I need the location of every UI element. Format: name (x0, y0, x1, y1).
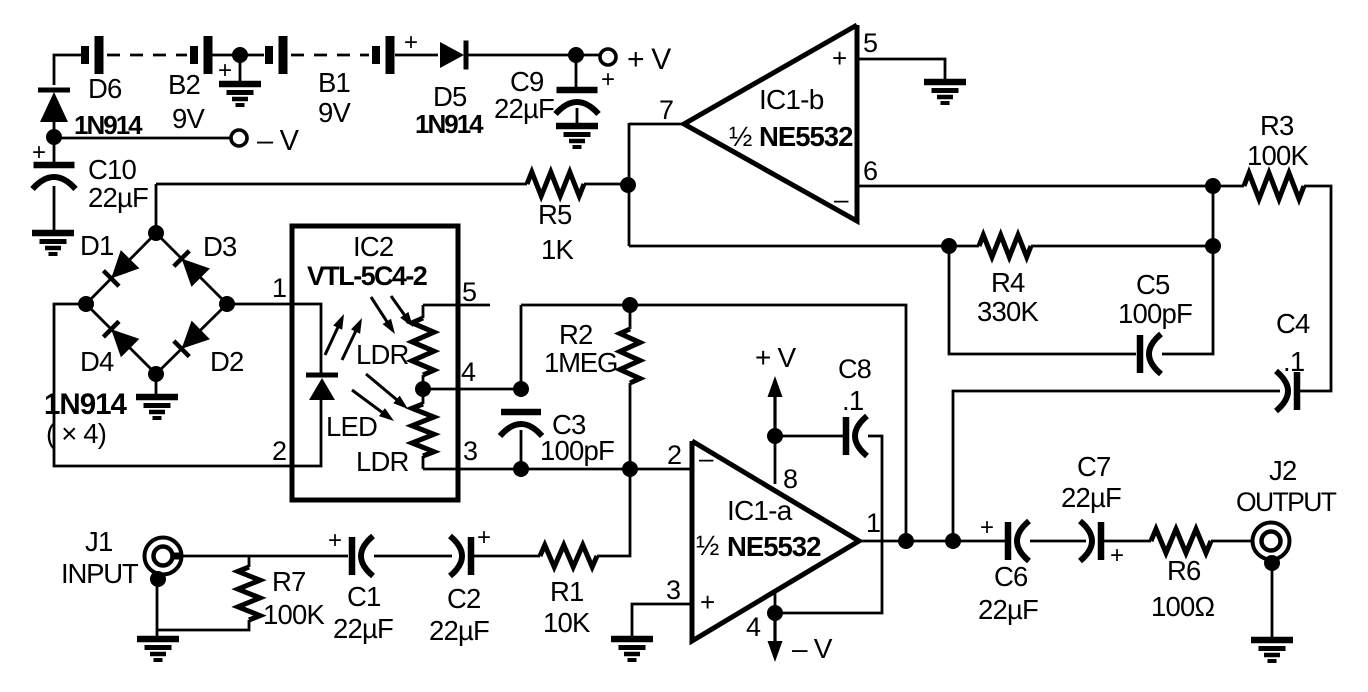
label R4 value 330K (977, 296, 1039, 327)
label R2 value 1MEG (544, 347, 617, 378)
svg-text:R4: R4 (991, 267, 1025, 298)
label +V (627, 43, 671, 76)
svg-text:+: + (601, 66, 614, 93)
label R6 value 100 ohm (1151, 591, 1214, 622)
svg-text:1K: 1K (541, 234, 574, 265)
label IC2 pin 5 (462, 277, 476, 307)
label J1 INPUT (61, 558, 139, 589)
svg-text:B2: B2 (168, 69, 200, 100)
wire C5 to R4 right (1162, 246, 1213, 354)
label +V supply (755, 342, 797, 373)
light arrow upper LDR 1 (371, 297, 395, 334)
wire C2 to R1 (471, 555, 540, 558)
battery B1 cell 1 (269, 36, 283, 74)
svg-text:C1: C1 (347, 581, 381, 612)
label IC1-b pin 7 (659, 95, 673, 125)
ground battery center (219, 84, 261, 105)
wire lower LDR top stub (422, 389, 425, 404)
wire top line to output (521, 305, 906, 541)
node R4 left (941, 238, 957, 254)
wire J1 to ground (156, 578, 159, 639)
node output 1 (898, 533, 914, 549)
wire pin 6 riser (1212, 186, 1215, 246)
label C4 value .1 (1283, 346, 1304, 377)
label IC1-b pin 6 (863, 156, 877, 186)
svg-text:2: 2 (272, 436, 286, 466)
svg-text:3: 3 (666, 575, 680, 605)
optocoupler IC2 box (292, 226, 458, 500)
terminal -V (231, 130, 247, 146)
capacitor C2 (450, 536, 471, 576)
svg-text:D4: D4 (80, 346, 114, 377)
label J1 (85, 526, 112, 557)
capacitor C6 (1008, 521, 1029, 561)
svg-text:R7: R7 (272, 566, 306, 597)
wire C5 branch (949, 246, 1136, 354)
terminal +V (600, 49, 616, 65)
wire bridge edge bottom-left (86, 304, 156, 374)
svg-text:– V: – V (792, 633, 833, 664)
label C1 (347, 581, 381, 612)
diode D1 (103, 250, 139, 286)
wire pin 7 vertical (628, 123, 631, 246)
svg-text:22µF: 22µF (333, 613, 393, 644)
label IC1-a pin 4 (746, 612, 761, 642)
svg-text:D1: D1 (80, 230, 114, 261)
label IC1-b half (729, 121, 752, 152)
label D6 (88, 73, 122, 104)
wire bridge left node to IC2 pin 2 (54, 304, 321, 466)
LED inside IC2 (306, 375, 338, 400)
svg-text:.1: .1 (1283, 346, 1304, 377)
svg-text:4: 4 (746, 612, 761, 642)
wire center tap to ground (239, 55, 242, 84)
wire R2 top stub (629, 305, 632, 329)
light arrow LED up 1 (325, 314, 344, 355)
node +V (568, 47, 584, 63)
ground pin 3 (611, 639, 653, 660)
label C9 plus (601, 66, 614, 93)
label IC1-a part NE5532 (727, 531, 821, 562)
wire top rail corner to D6 (54, 55, 55, 85)
label bridge part 1N914 (44, 388, 128, 421)
label C10 plus (32, 139, 45, 166)
resistor R7 (238, 567, 260, 620)
label C10 value 22uF (88, 182, 148, 213)
label J2 OUTPUT (1236, 487, 1337, 517)
label IC2 (353, 231, 393, 262)
capacitor C10 (33, 165, 76, 189)
label IC1-a (727, 495, 793, 526)
svg-text:6: 6 (863, 156, 877, 186)
node J2 sleeve (1264, 555, 1280, 571)
ground J1 (137, 639, 179, 660)
resistor R4 (979, 235, 1031, 257)
wire C8 to pin 4 (775, 436, 882, 613)
wire C9 to ground (576, 108, 579, 127)
op-amp IC1-b (684, 25, 857, 221)
label upper LDR (356, 339, 409, 370)
wire dashed between B1 cells (291, 54, 369, 57)
wire -V line (54, 137, 231, 140)
svg-text:R3: R3 (1260, 110, 1294, 141)
svg-text:+: + (832, 43, 846, 73)
wire R2 bottom stub (629, 383, 632, 469)
wire pin 7 stub (629, 123, 684, 126)
wire dashed between B2 cells (107, 54, 187, 57)
connector J1 jack (145, 538, 184, 575)
label R3 (1260, 110, 1294, 141)
label IC1-b (759, 84, 824, 115)
label R7 value 100K (263, 599, 325, 630)
label C1 plus (328, 527, 341, 554)
wire pin 4 vertical (774, 592, 777, 613)
wire IC1-a output (859, 540, 1008, 543)
wire pin6 node to R3 (1213, 185, 1244, 188)
diode D2 (174, 321, 210, 357)
wire D5 to +V node (468, 54, 600, 57)
svg-text:– V: – V (257, 125, 300, 157)
ground J2 (1251, 640, 1293, 661)
arrow -V supply (768, 618, 783, 662)
svg-text:1: 1 (866, 508, 880, 538)
svg-text:½: ½ (729, 121, 752, 152)
label R5 value 1K (541, 234, 574, 265)
photoresistor lower LDR (412, 404, 434, 456)
svg-text:7: 7 (659, 95, 673, 125)
label C7 plus (1110, 542, 1123, 569)
ground C9 (556, 126, 598, 147)
wire J2 to ground (1271, 563, 1274, 640)
label R4 (991, 267, 1025, 298)
label B1 (318, 67, 350, 98)
wire pin 6 line (857, 185, 1213, 188)
node IC2 pin 4 junction (415, 381, 431, 397)
svg-text:R5: R5 (538, 199, 572, 230)
label LED (326, 411, 377, 442)
label B2 plus (218, 57, 231, 84)
capacitor C9 (556, 90, 599, 114)
wire bridge right node to IC2 pin 1 (227, 304, 321, 373)
resistor R5 (527, 172, 584, 196)
label IC1-a plus input (700, 587, 714, 617)
svg-text:100Ω: 100Ω (1151, 591, 1214, 622)
svg-text:1N914: 1N914 (44, 388, 128, 421)
label D5 part 1N914 (415, 109, 484, 139)
label C2 (447, 583, 481, 614)
svg-text:C10: C10 (88, 154, 137, 185)
wire R1 to pin 2 riser (597, 469, 630, 556)
wire C7 to R6 (1101, 540, 1151, 543)
wire B1 to D5 (395, 54, 438, 57)
resistor R3 (1244, 173, 1304, 199)
node bridge right (219, 296, 235, 312)
op-amp IC1-a (692, 441, 859, 641)
svg-text:C5: C5 (1136, 269, 1170, 300)
svg-text:J1: J1 (85, 526, 112, 557)
svg-text:4: 4 (461, 357, 476, 387)
node R4 right (1205, 238, 1221, 254)
svg-text:C7: C7 (1077, 451, 1111, 482)
label D5 (433, 81, 467, 112)
svg-text:330K: 330K (977, 296, 1039, 327)
wire bridge top stub (155, 184, 158, 233)
label C3 value 100pF (540, 435, 614, 466)
wire pin 3 to ground (632, 604, 692, 639)
capacitor C4 (1276, 371, 1297, 411)
label IC1-a pin 3 (666, 575, 680, 605)
svg-text:22µF: 22µF (1061, 482, 1121, 513)
label B2 (168, 69, 200, 100)
svg-text:C2: C2 (447, 583, 481, 614)
svg-text:5: 5 (863, 28, 877, 58)
label C5 (1136, 269, 1170, 300)
wire B2 to B1 (212, 54, 264, 57)
svg-text:R1: R1 (550, 576, 584, 607)
label IC2 pin 3 (463, 436, 477, 466)
diode D6 (38, 90, 70, 122)
svg-text:IC1-b: IC1-b (759, 84, 824, 115)
svg-text:+: + (328, 527, 341, 554)
wire pin 8 vertical (774, 398, 777, 484)
wire +V node to C9 (575, 55, 578, 87)
label C4 (1276, 308, 1310, 339)
label IC1-b part NE5532 (759, 121, 853, 152)
connector J2 jack (1253, 523, 1290, 560)
capacitor C8 (846, 416, 867, 456)
label IC1-a pin 1 (866, 508, 880, 538)
label C1 value 22uF (333, 613, 393, 644)
svg-text:–: – (834, 184, 849, 214)
label C7 value 22uF (1061, 482, 1121, 513)
arrow +V supply (768, 376, 783, 430)
label D3 (203, 231, 237, 262)
svg-text:IC1-a: IC1-a (727, 495, 793, 526)
label R5 (538, 199, 572, 230)
svg-text:3: 3 (463, 436, 477, 466)
wire C6 to C7 (1030, 540, 1086, 543)
light arrow LED up 2 (342, 318, 362, 360)
battery B1 cell 2 (376, 36, 390, 74)
svg-text:10K: 10K (543, 607, 591, 638)
svg-text:LED: LED (326, 411, 377, 442)
label B1 plus (404, 29, 417, 56)
wire pin 8 to C8 (775, 435, 846, 438)
wire bridge edge top-right (156, 233, 227, 304)
svg-text:5: 5 (462, 277, 476, 307)
svg-text:B1: B1 (318, 67, 350, 98)
svg-text:1N914: 1N914 (74, 110, 143, 140)
svg-text:2: 2 (667, 440, 681, 470)
svg-text:9V: 9V (172, 103, 205, 134)
svg-text:D5: D5 (433, 81, 467, 112)
label C5 value 100pF (1118, 298, 1192, 329)
label C7 (1077, 451, 1111, 482)
battery B2 cell 1 (85, 36, 99, 74)
label C6 (994, 561, 1028, 592)
wire C10 to ground (53, 186, 56, 233)
light arrow lower LDR 2 (352, 390, 394, 421)
label C6 plus (980, 514, 993, 541)
svg-text:+ V: + V (755, 342, 797, 373)
label C8 value .1 (842, 385, 863, 416)
svg-text:22µF: 22µF (978, 594, 1038, 625)
label D4 (80, 346, 114, 377)
svg-text:1: 1 (272, 273, 286, 303)
wire upper LDR top stub (422, 305, 425, 318)
svg-text:100pF: 100pF (540, 435, 614, 466)
svg-text:100K: 100K (263, 599, 325, 630)
label C3 (552, 409, 586, 440)
wire R7 top stub (248, 556, 251, 567)
wire D6 to C10 (53, 122, 56, 162)
node pin 8 / +V (767, 428, 783, 444)
battery B2 cell 2 (194, 36, 208, 74)
label IC1-a pin 2 (667, 440, 681, 470)
label D6 part 1N914 (74, 110, 143, 140)
svg-text:+: + (404, 29, 417, 56)
label IC1-a pin 8 (783, 464, 797, 494)
node -V junction (46, 129, 62, 145)
wire R3 to C4 (1299, 186, 1331, 391)
node R5 to pin 7 (620, 177, 636, 193)
label lower LDR (356, 446, 409, 477)
svg-text:8: 8 (783, 464, 797, 494)
ground bridge (136, 397, 178, 418)
label J2 (1269, 455, 1296, 486)
node output 2 (945, 533, 961, 549)
wire feedback top line (520, 305, 523, 389)
wire R6 to J2 (1211, 540, 1254, 543)
svg-text:+: + (218, 57, 231, 84)
svg-text:D3: D3 (203, 231, 237, 262)
label B2 value 9V (172, 103, 205, 134)
wire upper LDR bottom stub (422, 375, 425, 389)
label B1 value 9V (318, 97, 351, 128)
label C8 (838, 354, 871, 384)
svg-text:C8: C8 (838, 354, 871, 384)
label R2 (559, 319, 593, 350)
label D2 (210, 346, 244, 377)
svg-text:22µF: 22µF (494, 93, 554, 124)
svg-text:INPUT: INPUT (61, 558, 139, 589)
resistor R2 (620, 329, 640, 383)
svg-text:C6: C6 (994, 561, 1028, 592)
svg-text:+: + (1110, 542, 1123, 569)
capacitor C7 (1080, 521, 1101, 561)
svg-text:D6: D6 (88, 73, 122, 104)
node C3 top junction (513, 381, 529, 397)
capacitor C3 (500, 412, 542, 436)
wire IC2 pin 4 line (423, 388, 521, 391)
svg-text:NE5532: NE5532 (759, 121, 853, 152)
node J1 sleeve (150, 571, 166, 587)
diode D3 (174, 251, 210, 287)
svg-text:OUTPUT: OUTPUT (1236, 487, 1337, 517)
label C2 value 22uF (429, 615, 489, 646)
wire bridge bottom to ground (155, 374, 158, 397)
svg-text:J2: J2 (1269, 455, 1296, 486)
wire bridge to R5 (156, 183, 527, 186)
resistor R6 (1151, 529, 1211, 553)
wire IC2 pin 3 line (423, 468, 692, 471)
wire pin 5 to ground (857, 59, 945, 82)
svg-text:1MEG: 1MEG (544, 347, 617, 378)
svg-text:LDR: LDR (356, 339, 409, 370)
label IC2 pin 4 (461, 357, 476, 387)
light arrow upper LDR 2 (391, 296, 413, 327)
label R1 value 10K (543, 607, 591, 638)
label R7 (272, 566, 306, 597)
wire R7 bottom to J1 ground (157, 620, 249, 630)
node pin 4 / -V (767, 605, 783, 621)
label IC2 part VTL-5C4-2 (307, 261, 427, 291)
label D1 (80, 230, 114, 261)
label IC1-b minus input (834, 184, 849, 214)
svg-text:22µF: 22µF (429, 615, 489, 646)
label R1 (550, 576, 584, 607)
node R2 bottom (622, 461, 638, 477)
label IC2 pin 2 (272, 436, 286, 466)
label IC2 pin 1 (272, 273, 286, 303)
svg-text:100K: 100K (1247, 140, 1309, 171)
photoresistor upper LDR (412, 318, 434, 375)
label -V (257, 125, 300, 157)
wire input line J1 to C1 (180, 555, 348, 558)
svg-text:IC2: IC2 (353, 231, 393, 262)
ground pin 5 (924, 82, 966, 103)
wire R5 to pin7 node (584, 183, 629, 186)
wire bridge edge top-left (86, 233, 156, 304)
node pin 6 junction (1205, 178, 1221, 194)
svg-text:9V: 9V (318, 97, 351, 128)
label IC1-b pin 5 (863, 28, 877, 58)
node bridge left (78, 296, 94, 312)
wire C1 to C2 (374, 555, 452, 558)
svg-text:NE5532: NE5532 (727, 531, 821, 562)
capacitor C5 (1140, 334, 1161, 374)
wire top rail from D6 to B2 (55, 54, 81, 57)
light arrow lower LDR 1 (366, 374, 408, 409)
label IC1-a minus input (699, 443, 714, 473)
node battery center tap (232, 47, 248, 63)
svg-text:+: + (32, 139, 45, 166)
node R2 top (622, 297, 638, 313)
capacitor C1 (352, 536, 373, 576)
label -V supply (792, 633, 833, 664)
wire bridge edge bottom-right (156, 304, 227, 374)
node bridge bottom (148, 366, 164, 382)
svg-text:.1: .1 (842, 385, 863, 416)
svg-text:+: + (700, 587, 714, 617)
label C9 (510, 66, 544, 97)
svg-text:D2: D2 (210, 346, 244, 377)
svg-text:R2: R2 (559, 319, 593, 350)
svg-text:22µF: 22µF (88, 182, 148, 213)
label IC1-b plus input (832, 43, 846, 73)
node C3 bottom junction (513, 461, 529, 477)
wire C4 to output node (953, 391, 1280, 541)
label IC1-a half (696, 530, 719, 561)
svg-text:100pF: 100pF (1118, 298, 1192, 329)
label C6 value 22uF (978, 594, 1038, 625)
ground C10 (32, 233, 74, 254)
label bridge quantity (x4) (46, 418, 106, 449)
svg-text:–: – (699, 443, 714, 473)
label R6 (1167, 555, 1201, 586)
svg-text:+: + (980, 514, 993, 541)
svg-text:VTL-5C4-2: VTL-5C4-2 (307, 261, 427, 291)
